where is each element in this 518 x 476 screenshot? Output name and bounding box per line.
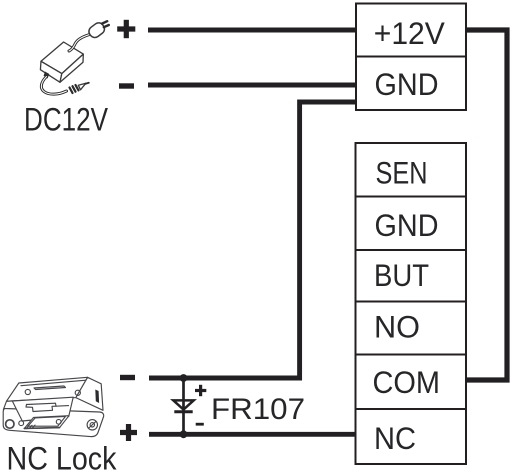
faceplate bbox=[3, 408, 103, 436]
adapter body right face bbox=[60, 54, 83, 82]
right face slot bbox=[95, 390, 99, 404]
body back wall inner edge bbox=[21, 380, 86, 386]
svg-text:SEN: SEN bbox=[376, 155, 428, 191]
cavity opening flap bbox=[12, 397, 73, 421]
node + (adapter positive) bbox=[117, 20, 135, 38]
diode cathode bar bbox=[174, 410, 192, 413]
terminal block lock (SEN GND BUT NO COM NC) bbox=[356, 143, 467, 464]
diode + polarity label bbox=[195, 385, 206, 396]
svg-text:DC12V: DC12V bbox=[24, 102, 108, 138]
diode D1 FR107 bbox=[173, 378, 193, 434]
node - (lock negative) bbox=[120, 375, 135, 380]
lip hatch bbox=[27, 425, 36, 428]
cable boot nub bbox=[44, 72, 50, 79]
svg-text:NC: NC bbox=[374, 420, 416, 456]
svg-text:GND: GND bbox=[375, 207, 439, 243]
top face screw right bbox=[75, 390, 80, 395]
plate screw small left bbox=[19, 421, 24, 426]
input cord to plug bbox=[69, 35, 90, 52]
plate screw small right bbox=[56, 419, 61, 424]
adapter body top face bbox=[41, 42, 83, 74]
junction dot top bbox=[180, 374, 188, 382]
plug body bbox=[87, 21, 107, 40]
faceplate left hole bbox=[6, 420, 14, 428]
faceplate right screw bbox=[87, 420, 97, 430]
wire GND to lock negative bbox=[149, 102, 356, 378]
svg-text:GND: GND bbox=[375, 66, 439, 102]
top face ridge bbox=[34, 386, 66, 390]
terminal block power (+12V / GND) bbox=[356, 4, 466, 111]
adapter body front face bbox=[40, 61, 61, 82]
barrel connector cone and tip bbox=[78, 83, 86, 90]
body top face bbox=[7, 377, 88, 401]
diode triangle (anode) bbox=[173, 400, 193, 409]
svg-text:BUT: BUT bbox=[374, 257, 429, 293]
junction dot bottom bbox=[180, 430, 188, 438]
svg-text:NO: NO bbox=[374, 309, 420, 345]
node + (lock positive) bbox=[120, 424, 137, 441]
svg-text:+12V: +12V bbox=[374, 15, 445, 51]
svg-text:COM: COM bbox=[373, 364, 441, 400]
diode vertical lead bbox=[182, 378, 185, 434]
power adapter DC12V icon bbox=[40, 21, 108, 94]
top face screw left bbox=[25, 389, 30, 394]
node - (adapter negative) bbox=[119, 83, 134, 88]
keeper lip bbox=[24, 416, 69, 429]
svg-text:FR107: FR107 bbox=[211, 393, 305, 426]
wire + to +12V bbox=[148, 28, 356, 33]
output cord bbox=[41, 77, 66, 95]
NC lock (electric strike) icon bbox=[3, 377, 103, 436]
body right face bbox=[76, 377, 103, 410]
barrel connector ribs bbox=[70, 85, 79, 93]
cavity left wall bbox=[3, 401, 12, 410]
wire lock + to NC bbox=[149, 432, 356, 437]
cavity inner keeper step bbox=[27, 403, 69, 406]
lip front edge bbox=[24, 427, 59, 430]
wire COM to +12V (right side) bbox=[466, 30, 507, 380]
plug prongs bbox=[102, 21, 109, 27]
svg-text:NC Lock: NC Lock bbox=[7, 441, 118, 476]
wire - to GND bbox=[148, 83, 356, 88]
diode - polarity label bbox=[196, 423, 204, 426]
